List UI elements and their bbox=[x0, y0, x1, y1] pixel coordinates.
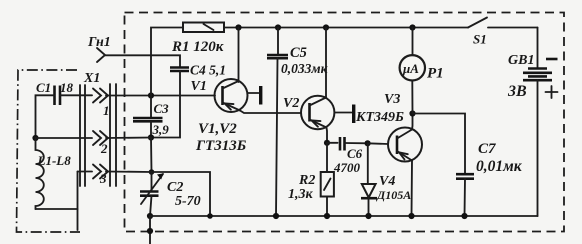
wire coil bottom to pin 3 riser bbox=[36, 208, 78, 210]
wire pin3 riser to case (chassis) bbox=[77, 172, 79, 231]
svg-text:2: 2 bbox=[100, 141, 108, 156]
node base V1 / pin1 / R1 bbox=[148, 92, 154, 98]
top rail bbox=[239, 27, 469, 29]
svg-text:P1: P1 bbox=[427, 66, 444, 82]
node rail / C2 loop bbox=[207, 213, 213, 219]
svg-text:V2: V2 bbox=[283, 96, 299, 111]
wire V1 emitter to V2 base bbox=[240, 111, 301, 114]
node rail / R2 bbox=[324, 213, 330, 219]
svg-text:18: 18 bbox=[60, 80, 74, 95]
wire node to pin 2 bbox=[36, 137, 93, 139]
svg-text:1,3к: 1,3к bbox=[288, 187, 314, 202]
svg-text:3В: 3В bbox=[507, 83, 527, 100]
svg-text:С3: С3 bbox=[154, 101, 170, 116]
svg-text:С7: С7 bbox=[478, 141, 496, 157]
node rail / P1 bbox=[409, 24, 415, 30]
wire rail to case stub bbox=[149, 216, 151, 244]
svg-text:Х1: Х1 bbox=[83, 71, 100, 86]
capacitor C7 bbox=[456, 141, 523, 216]
connector X1 pin 1 bbox=[93, 89, 110, 119]
node rail / C7 bbox=[461, 213, 467, 219]
wire C1 right to connector pin 1 bbox=[60, 94, 92, 96]
node stub on case border bbox=[147, 228, 153, 234]
svg-text:4700: 4700 bbox=[333, 160, 361, 175]
meter P1 bbox=[400, 28, 444, 114]
svg-text:V4: V4 bbox=[379, 174, 395, 189]
svg-text:1: 1 bbox=[103, 103, 110, 118]
transistor V3 bbox=[355, 92, 422, 162]
connector X1 pin 3 bbox=[93, 165, 108, 187]
svg-text:3,9: 3,9 bbox=[152, 122, 170, 137]
transistor V2 bbox=[283, 96, 334, 129]
capacitor C5 bbox=[267, 28, 329, 217]
svg-text:GB1: GB1 bbox=[508, 53, 534, 68]
node rail / C5 bbox=[275, 24, 281, 30]
wire pin3 junction to ground rail (right loop) bbox=[152, 172, 211, 216]
wire base node up to R1 bbox=[151, 28, 183, 96]
svg-text:5-70: 5-70 bbox=[175, 194, 201, 209]
resistor R2 1.3k bbox=[288, 143, 334, 216]
dashed enclosure (main unit case) bbox=[125, 13, 565, 232]
node V3 collector / P1 / C7 bbox=[409, 110, 415, 116]
wire V2 emitter down bbox=[326, 128, 329, 143]
connector X1 socket columns bbox=[83, 71, 116, 186]
node C6 / V4 / V3 base bbox=[365, 140, 371, 146]
resistor R1 120k bbox=[171, 23, 224, 56]
node pin3 junction bbox=[149, 169, 155, 175]
wire switch to battery bbox=[537, 28, 539, 69]
node coil top / C1 / pin 2 bbox=[32, 135, 38, 141]
capacitor C6 bbox=[327, 137, 368, 175]
wire C1 left down to coil top node bbox=[36, 95, 55, 138]
svg-text:S1: S1 bbox=[473, 32, 487, 47]
inductor L1-L8 bbox=[36, 138, 72, 209]
connector X1 pin 2 bbox=[93, 131, 108, 156]
node rail / V3 emitter bbox=[408, 213, 414, 219]
wire R1 to rail bbox=[224, 27, 239, 29]
wire pin2 to node bbox=[106, 137, 151, 140]
V1 case lead bbox=[248, 86, 263, 105]
svg-text:С1: С1 bbox=[36, 80, 51, 95]
wire C4 bottom down to pin2 node (crosses pin1 wire) bbox=[151, 71, 180, 138]
svg-text:V3: V3 bbox=[384, 92, 400, 107]
wire battery to bottom rail bbox=[537, 80, 539, 216]
dash-dot enclosure (plug-in coil unit) bbox=[17, 70, 81, 232]
node rail / C5 bottom bbox=[273, 213, 279, 219]
node C3 bottom / pin2 / C2 bbox=[148, 134, 154, 140]
bottom rail bbox=[150, 215, 538, 217]
node rail / V4 bbox=[365, 213, 371, 219]
jack Гн1 bbox=[87, 35, 111, 62]
svg-text:С4 5,1: С4 5,1 bbox=[190, 63, 226, 78]
svg-text:С6: С6 bbox=[347, 146, 363, 161]
svg-text:L1-L8: L1-L8 bbox=[37, 153, 72, 168]
diode V4 bbox=[361, 143, 411, 216]
wire rail to V1 collector bbox=[238, 28, 240, 83]
wire pin 1 to V1 base bbox=[106, 95, 215, 97]
wire jack to C4 bbox=[105, 55, 180, 67]
node V2 emitter / C6 / R2 bbox=[324, 140, 330, 146]
wire riser to pin 3 bbox=[78, 171, 93, 173]
svg-text:0,033мк: 0,033мк bbox=[281, 61, 329, 76]
transistor V1 bbox=[191, 79, 248, 112]
svg-text:V1: V1 bbox=[191, 79, 207, 94]
wire rail to V2 collector bbox=[325, 28, 327, 98]
svg-text:V1,V2: V1,V2 bbox=[198, 121, 237, 137]
svg-text:С2: С2 bbox=[167, 180, 183, 195]
label V1,V2 type bbox=[195, 121, 247, 154]
svg-text:Гн1: Гн1 bbox=[87, 35, 111, 50]
svg-text:3: 3 bbox=[99, 171, 107, 186]
svg-text:R2: R2 bbox=[298, 173, 315, 188]
svg-text:μА: μА bbox=[402, 61, 419, 76]
connector X1 plug columns (coil unit side) bbox=[80, 85, 85, 186]
capacitor C1 bbox=[36, 80, 74, 105]
wire V3 emitter to rail bbox=[411, 161, 414, 217]
wire node down to pin3 junction bbox=[150, 138, 153, 173]
svg-text:ГТ313Б: ГТ313Б bbox=[195, 138, 247, 154]
battery GB1 bbox=[507, 53, 558, 100]
node rail left end bbox=[147, 213, 153, 219]
capacitor C4 bbox=[170, 63, 226, 78]
svg-text:С5: С5 bbox=[290, 45, 307, 61]
svg-text:R1 120к: R1 120к bbox=[171, 39, 224, 55]
svg-text:Д105А: Д105А bbox=[376, 188, 411, 202]
svg-text:КТ349Б: КТ349Б bbox=[355, 110, 404, 125]
svg-text:0,01мк: 0,01мк bbox=[476, 158, 523, 175]
wire pin 3 to junction bbox=[106, 171, 152, 174]
capacitor C2 trimmer bbox=[140, 172, 201, 216]
node rail / V2 collector bbox=[323, 24, 329, 30]
wire node to V3 base bbox=[368, 142, 388, 145]
node rail / V1 collector bbox=[235, 24, 241, 30]
wire node to C7 bbox=[413, 114, 466, 175]
V2 case lead bbox=[334, 105, 355, 124]
switch S1 bbox=[468, 18, 538, 47]
wire V3 collector up bbox=[411, 114, 414, 130]
capacitor C3 bbox=[133, 96, 169, 138]
